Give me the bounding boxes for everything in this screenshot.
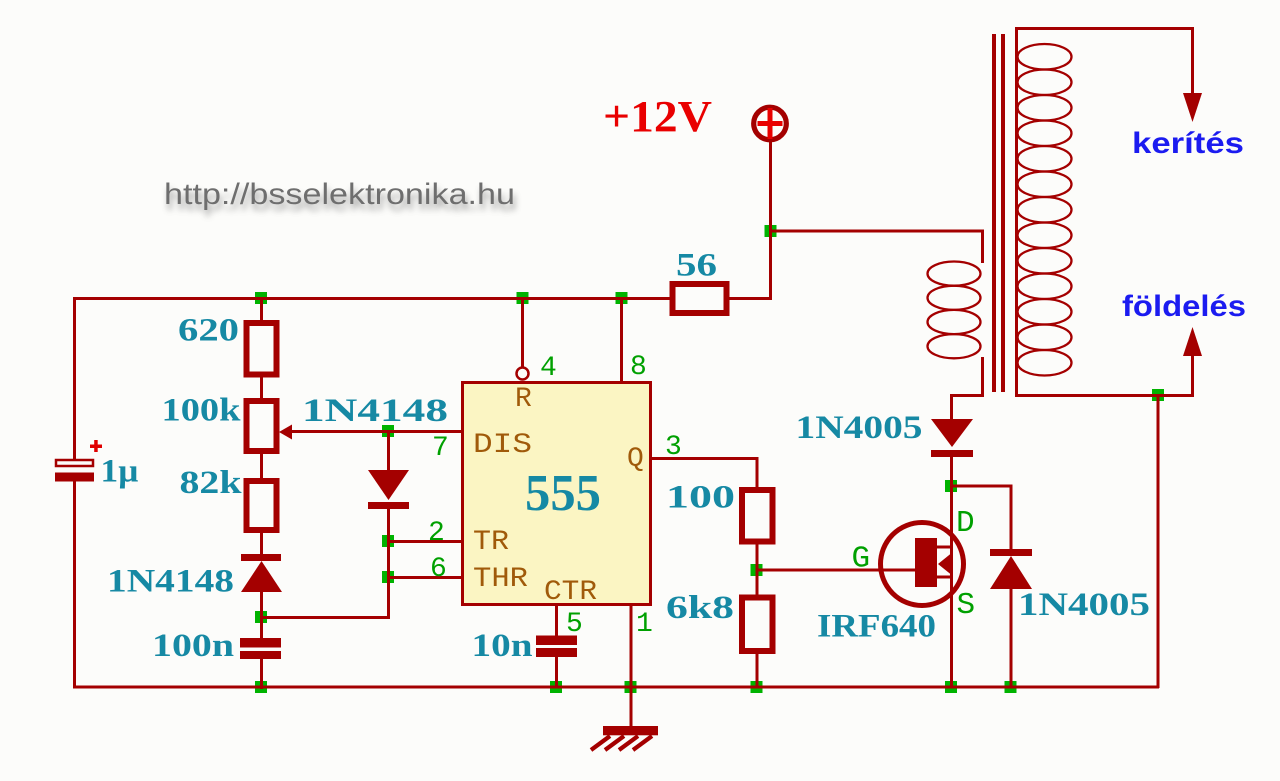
wire THR jog [260, 616, 390, 619]
node rail 6k8 [751, 681, 763, 693]
wire pin4 [521, 299, 524, 367]
node DIS diode [382, 425, 394, 437]
wire diode2 bottom [387, 509, 390, 619]
ground symbol bar [603, 726, 658, 735]
svg-text:2: 2 [428, 518, 445, 549]
svg-text:100: 100 [666, 480, 735, 516]
wire mosfet drain-source line [950, 456, 953, 688]
svg-text:IRF640: IRF640 [817, 609, 936, 645]
node 620 top [255, 292, 267, 304]
svg-text:100n: 100n [152, 628, 234, 664]
resistor 100k (pot body) [247, 401, 277, 451]
wire 100-6k8 [756, 542, 759, 598]
svg-text:G: G [852, 542, 871, 577]
svg-text:6: 6 [430, 554, 447, 585]
node rail pin1 [625, 681, 637, 693]
wire gate [756, 569, 917, 572]
wire ground stem [630, 687, 633, 726]
svg-text:5: 5 [566, 609, 583, 640]
node rail 100n [255, 681, 267, 693]
svg-text:1µ: 1µ [101, 454, 139, 490]
diode 1N4148 D1 (points up) bar [241, 554, 281, 561]
node THR [382, 571, 394, 583]
svg-text:THR: THR [473, 564, 528, 595]
transistor IRF640 mosfet circle [881, 523, 964, 606]
wire clamp diode top [1010, 485, 1013, 550]
capacitor 1u top plate [56, 460, 93, 466]
node drain clamp [945, 480, 957, 492]
wire 620-100k [260, 376, 263, 399]
wire pin5 bottom [555, 655, 558, 688]
svg-text:S: S [957, 588, 976, 623]
wire Q riser [756, 457, 759, 488]
diode 1N4005 D4 (points up) bar [990, 549, 1032, 556]
ground hatches [591, 736, 652, 750]
wire left rail upper [73, 297, 76, 460]
mosfet channel bar [915, 538, 937, 587]
svg-text:82k: 82k [180, 465, 243, 501]
node TR [382, 535, 394, 547]
wire pin1 [630, 605, 633, 688]
svg-text:+12V: +12V [603, 92, 712, 141]
svg-text:CTR: CTR [544, 577, 597, 608]
wire secondary connector [1015, 27, 1018, 396]
svg-text:6k8: 6k8 [666, 590, 734, 626]
capacitor 1u bottom plate [55, 473, 94, 482]
arrow foldeles up [1183, 327, 1202, 356]
svg-text:1N4148: 1N4148 [107, 564, 234, 600]
wire foldeles horizontal [1015, 394, 1194, 397]
svg-text:D: D [956, 506, 975, 541]
wire primary bottom [981, 357, 984, 397]
svg-text:1: 1 [636, 609, 653, 640]
IC 555 body [463, 383, 651, 605]
resistor 620 [247, 323, 277, 375]
power symbol +12V circle [754, 107, 787, 140]
transformer secondary winding [1018, 44, 1072, 376]
wire primary top riser [981, 230, 984, 263]
node rail 10n [550, 681, 562, 693]
node pin8 rail [616, 292, 628, 304]
wire 56 to +12V riser [729, 297, 772, 300]
wire clamp branch horizontal [950, 485, 1012, 488]
wire kerites top [1015, 27, 1194, 30]
resistor 6k8 [742, 598, 773, 652]
svg-text:1N4005: 1N4005 [796, 410, 923, 446]
node gate [751, 564, 763, 576]
node +12V branch [765, 225, 777, 237]
svg-text:3: 3 [665, 432, 682, 463]
wire THR [387, 576, 461, 579]
wire right riser [1157, 395, 1160, 688]
wire 620 top [260, 299, 263, 321]
capacitor 10n plate2 [536, 648, 577, 657]
diode 1N4005 D4 triangle [990, 556, 1032, 589]
svg-text:TR: TR [473, 527, 509, 558]
wire kerites arrow stem [1191, 28, 1194, 98]
wire diode-100n [260, 591, 263, 640]
diode 1N4148 D1 triangle [241, 561, 282, 592]
svg-text:8: 8 [630, 352, 647, 383]
wire pin5 top [555, 605, 558, 637]
arrow kerites down [1183, 93, 1202, 122]
transformer primary winding [928, 262, 981, 359]
wire Q out [652, 457, 758, 460]
node rail clamp [1005, 681, 1017, 693]
pin 4 reset circle [517, 368, 529, 380]
svg-text:1N4148: 1N4148 [302, 393, 448, 429]
mosfet source stub [937, 576, 952, 579]
wire +12V branch to primary [769, 230, 984, 233]
svg-text:DIS: DIS [473, 430, 532, 461]
svg-text:R: R [515, 384, 532, 415]
wire TR [387, 540, 461, 543]
svg-text:földelés: földelés [1122, 290, 1246, 323]
svg-text:100k: 100k [162, 393, 242, 429]
node foldeles [1152, 389, 1164, 401]
wire DIS [291, 430, 461, 433]
wire +12V vertical [769, 142, 772, 300]
svg-text:4: 4 [540, 353, 557, 384]
wire 82k-diode [260, 532, 263, 555]
resistor 100 [742, 490, 773, 542]
transformer core line 2 [1001, 34, 1005, 392]
diode 1N4148 D2 bar [368, 502, 409, 509]
svg-text:Q: Q [627, 444, 644, 475]
capacitor 1u plus [90, 440, 102, 452]
capacitor 100n plate1 [240, 638, 281, 648]
resistor 82k [247, 481, 277, 530]
transformer core line 1 [992, 34, 996, 392]
wire bottom rail [73, 686, 1159, 689]
svg-text:555: 555 [525, 465, 601, 522]
svg-text:http://bsselektronika.hu: http://bsselektronika.hu [164, 178, 515, 211]
svg-text:56: 56 [676, 248, 717, 284]
diode 1N4005 D3 (points down) triangle [931, 419, 973, 447]
node 100n top [255, 611, 267, 623]
wire pin8 [620, 299, 623, 382]
wire primary bottom jog [950, 394, 984, 397]
svg-text:kerítés: kerítés [1132, 127, 1244, 160]
mosfet arrow [938, 554, 951, 575]
wire 6k8-rail [756, 653, 759, 688]
diode 1N4148 D2 (points down) triangle [368, 470, 409, 500]
capacitor 100n plate2 [240, 651, 281, 659]
wire clamp diode bottom [1010, 588, 1013, 688]
svg-text:7: 7 [432, 433, 449, 464]
wire 100n-rail [260, 658, 263, 689]
node rail source [945, 681, 957, 693]
diode 1N4005 D3 bar [931, 450, 973, 457]
mosfet drain stub [937, 546, 952, 549]
svg-text:10n: 10n [472, 628, 533, 664]
capacitor 10n plate1 [536, 636, 577, 646]
node pin4 rail [517, 292, 529, 304]
wire jog to diode [950, 394, 953, 420]
pot wiper arrow [279, 425, 292, 440]
wire 100k-82k [260, 453, 263, 479]
resistor 56 [673, 284, 727, 313]
svg-text:620: 620 [178, 313, 239, 349]
wire left rail lower [73, 481, 76, 688]
wire diode2 top [387, 431, 390, 470]
power symbol plus [758, 108, 783, 139]
wire top rail left [73, 297, 672, 300]
wire foldeles arrow stem [1191, 352, 1194, 396]
svg-text:1N4005: 1N4005 [1018, 587, 1150, 623]
